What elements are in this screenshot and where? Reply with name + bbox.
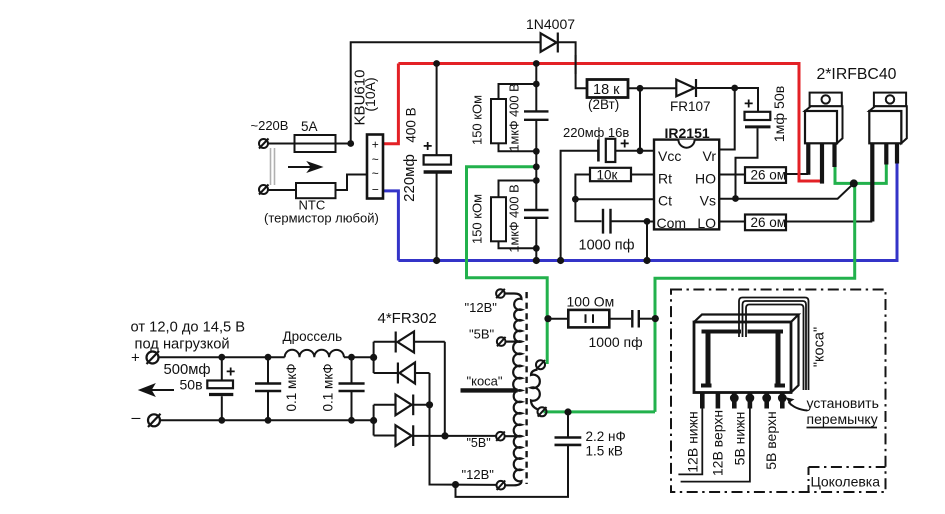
svg-text:18 к: 18 к: [593, 82, 620, 98]
svg-text:установить: установить: [807, 395, 879, 411]
svg-text:12В верхн: 12В верхн: [710, 410, 726, 476]
svg-text:"12В": "12В": [462, 467, 495, 482]
svg-text:Цоколевка: Цоколевка: [811, 474, 881, 490]
svg-text:10к: 10к: [597, 167, 618, 182]
svg-text:"коса": "коса": [467, 374, 503, 389]
svg-text:26 ом: 26 ом: [751, 215, 787, 230]
svg-text:(10A): (10A): [362, 77, 378, 111]
svg-text:(2Вт): (2Вт): [588, 97, 619, 112]
svg-text:перемычку: перемычку: [807, 411, 878, 427]
svg-text:"12В": "12В": [465, 300, 498, 315]
svg-text:2*IRFBC40: 2*IRFBC40: [817, 66, 897, 83]
svg-text:1мкФ 400 В: 1мкФ 400 В: [507, 83, 522, 151]
svg-text:1000 пф: 1000 пф: [589, 334, 643, 350]
svg-text:5В верхн: 5В верхн: [763, 411, 779, 469]
svg-text:26 ом: 26 ом: [751, 168, 787, 183]
svg-text:4*FR302: 4*FR302: [378, 310, 437, 327]
svg-text:Vr: Vr: [703, 148, 717, 164]
svg-text:1000 пф: 1000 пф: [579, 238, 635, 254]
svg-text:2.2 нФ: 2.2 нФ: [586, 429, 626, 444]
svg-text:от 12,0 до 14,5 В: от 12,0 до 14,5 В: [131, 320, 246, 336]
svg-text:HO: HO: [695, 171, 716, 187]
svg-text:400 В: 400 В: [404, 107, 419, 142]
svg-text:+: +: [226, 364, 235, 381]
svg-text:–: –: [132, 410, 141, 427]
svg-text:1.5 кВ: 1.5 кВ: [586, 444, 623, 459]
svg-text:220мф: 220мф: [401, 154, 418, 202]
svg-text:+: +: [744, 96, 753, 113]
svg-text:150 кОм: 150 кОм: [470, 194, 485, 244]
svg-text:"5В": "5В": [469, 326, 495, 341]
svg-text:под нагрузкой: под нагрузкой: [135, 337, 230, 353]
svg-text:+: +: [423, 138, 432, 155]
svg-text:500мф: 500мф: [164, 362, 211, 378]
svg-text:+: +: [372, 137, 379, 151]
svg-text:Дроссель: Дроссель: [283, 329, 343, 344]
svg-text:Com: Com: [657, 215, 687, 231]
svg-text:"5В": "5В": [467, 436, 491, 450]
svg-text:50в: 50в: [180, 377, 203, 393]
svg-text:LO: LO: [697, 215, 716, 231]
svg-text:~220В: ~220В: [251, 118, 289, 133]
svg-text:"коса": "коса": [812, 327, 828, 367]
svg-text:1мкФ 400 В: 1мкФ 400 В: [507, 184, 522, 252]
svg-text:Vcc: Vcc: [658, 148, 681, 164]
svg-text:0.1 мкФ: 0.1 мкФ: [284, 364, 299, 412]
svg-text:+: +: [131, 350, 140, 367]
svg-text:+: +: [620, 136, 629, 153]
svg-text:(термистор любой): (термистор любой): [264, 211, 379, 226]
svg-text:~: ~: [372, 166, 379, 180]
svg-text:100 Ом: 100 Ом: [567, 294, 615, 310]
svg-text:Vs: Vs: [700, 193, 716, 209]
svg-text:1N4007: 1N4007: [526, 16, 575, 32]
svg-text:1мф 50в: 1мф 50в: [772, 86, 788, 143]
svg-text:5А: 5А: [301, 119, 318, 134]
svg-text:Rt: Rt: [658, 171, 672, 187]
svg-text:150 кОм: 150 кОм: [470, 95, 485, 145]
svg-text:12В нижн: 12В нижн: [685, 411, 701, 472]
svg-text:−: −: [372, 182, 379, 196]
svg-text:0.1 мкФ: 0.1 мкФ: [321, 364, 336, 412]
svg-text:5В нижн: 5В нижн: [732, 412, 748, 466]
svg-text:~: ~: [372, 152, 379, 166]
svg-text:IR2151: IR2151: [665, 125, 710, 141]
svg-text:Ct: Ct: [658, 193, 672, 209]
svg-text:FR107: FR107: [670, 99, 711, 114]
